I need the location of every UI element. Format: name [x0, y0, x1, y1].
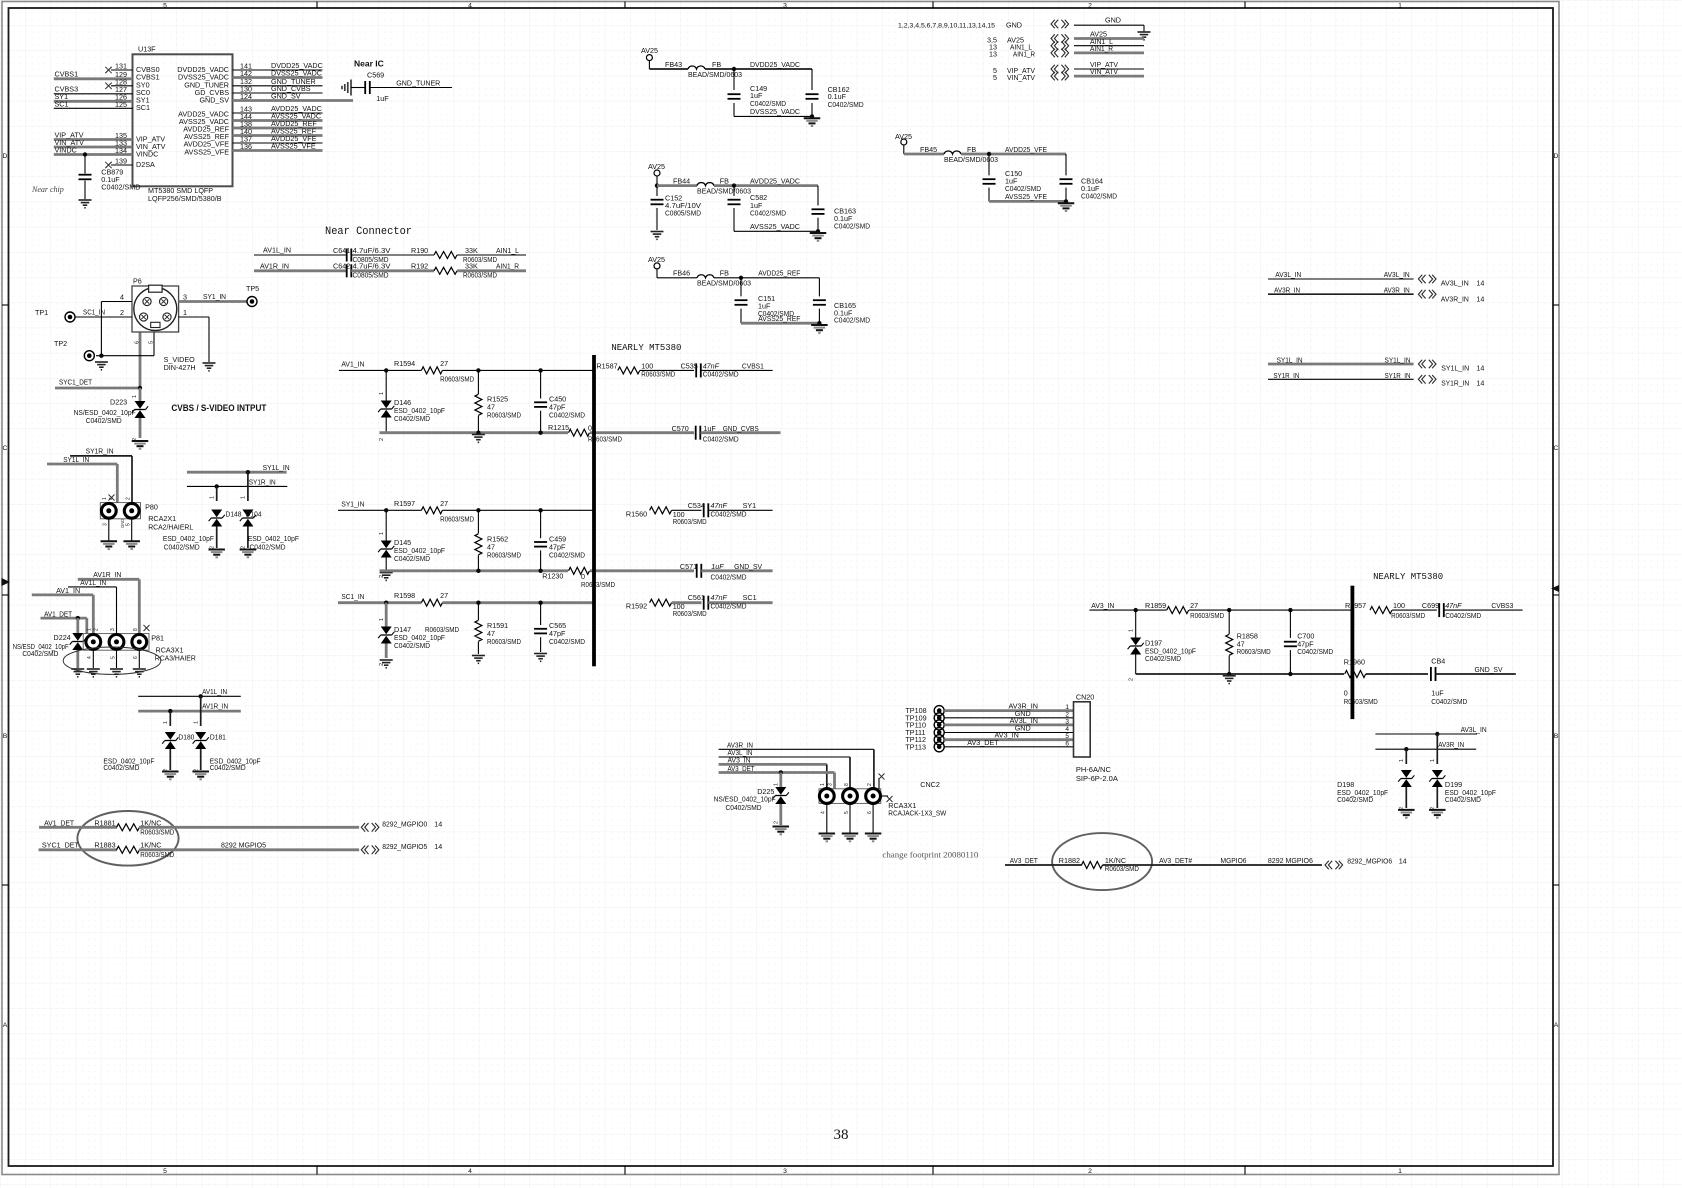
svg-text:GND: GND: [1006, 21, 1022, 30]
node R1858 junction: [1227, 608, 1231, 612]
net VINDC wire to pin 134: [54, 145, 133, 155]
capacitor CB164: [1060, 154, 1118, 201]
ground below D225: [773, 827, 790, 835]
ferrite bead FB46: [673, 269, 751, 288]
svg-text:CVBS3: CVBS3: [1491, 601, 1513, 610]
ground below CB165: [811, 325, 828, 333]
svg-text:1: 1: [132, 395, 138, 398]
ground below P81 pin 6: [133, 669, 146, 677]
svg-text:AV3R_IN: AV3R_IN: [1441, 294, 1469, 303]
svg-text:D223: D223: [110, 398, 127, 407]
svg-text:VINDC: VINDC: [55, 145, 77, 154]
svg-text:CB4: CB4: [1431, 657, 1445, 666]
svg-text:VIN_ATV: VIN_ATV: [1090, 67, 1118, 76]
resistor R1597: [394, 499, 594, 524]
ground below D199: [1429, 810, 1446, 818]
terminal AV25 (FB45): [895, 132, 944, 154]
resistor R192: [404, 262, 526, 280]
node TP2/ground junction: [99, 354, 103, 358]
diode D223: [74, 388, 149, 441]
node D146 junction: [384, 368, 388, 372]
op-amp U13F MT5380 IC body: [133, 44, 233, 186]
svg-text:R1859: R1859: [1145, 601, 1166, 610]
svg-text:27: 27: [1190, 601, 1198, 610]
svg-text:1: 1: [102, 497, 108, 500]
test point TP1: [35, 308, 75, 322]
x-marks at CNC2 switch pins: [879, 774, 893, 803]
node C565 junction: [538, 601, 542, 605]
svg-text:AV3_DET: AV3_DET: [967, 738, 999, 747]
svg-text:A: A: [1554, 1022, 1559, 1029]
net SY1R_IN wire to P80: [70, 447, 132, 503]
svg-text:C0402/SMD: C0402/SMD: [711, 602, 747, 611]
wire CN20 pin 3 net AV3L_IN: [944, 716, 1073, 726]
resistor R1591: [475, 603, 521, 654]
net GND_CVBS pin 130: [233, 84, 323, 93]
svg-text:R1957: R1957: [1345, 601, 1366, 610]
svg-text:8292_MGPIO5: 8292_MGPIO5: [382, 842, 427, 851]
svg-text:5: 5: [126, 523, 132, 526]
svg-text:C: C: [3, 445, 8, 452]
svg-text:1: 1: [1065, 704, 1069, 711]
net GND_TUNER label: [396, 78, 440, 87]
svg-text:C0402/SMD: C0402/SMD: [834, 316, 870, 325]
terminal AV25 (FB46): [648, 255, 697, 278]
svg-text:AVSS25_VADC: AVSS25_VADC: [750, 222, 800, 231]
diode D146: [378, 370, 445, 441]
svg-text:1K/NC: 1K/NC: [140, 818, 161, 827]
net SY1R_IN row: [1268, 371, 1414, 380]
right border revision arrow: [1551, 585, 1559, 592]
svg-text:PH-6A/NC: PH-6A/NC: [1076, 765, 1111, 774]
Near Connector title: [325, 226, 412, 238]
NEARLY MT5380 left divider bar: [592, 355, 596, 666]
svg-text:GND_TUNER: GND_TUNER: [396, 78, 440, 87]
P6 pin 1 wire to ground: [179, 308, 209, 362]
svg-text:1: 1: [1129, 629, 1135, 632]
svg-text:5: 5: [163, 1168, 167, 1175]
net AVSS25_REF pin 140: [233, 127, 323, 136]
node D180 junction: [168, 709, 172, 713]
svg-text:D: D: [3, 153, 8, 160]
net CVBS3 wire to pin 127: [54, 85, 133, 95]
svg-text:R1881: R1881: [94, 818, 115, 827]
svg-text:TP1: TP1: [35, 308, 48, 317]
node R1858 rail junction: [1227, 672, 1231, 676]
svg-text:FB43: FB43: [665, 60, 682, 69]
svg-text:SY1_IN: SY1_IN: [341, 499, 364, 508]
svg-text:1K/NC: 1K/NC: [140, 841, 161, 850]
net AV1L_IN wire: [254, 246, 347, 256]
P6 pin 3 wire SY1_IN to TP5: [179, 292, 247, 302]
svg-text:C561: C561: [688, 593, 705, 602]
wire CN20 pin 4 net GND: [944, 724, 1073, 734]
svg-text:SYC1_DET: SYC1_DET: [42, 841, 80, 850]
net AV3L_IN row: [1268, 270, 1414, 279]
svg-text:C0402/SMD: C0402/SMD: [210, 763, 246, 772]
ground below P6 pin 4: [95, 362, 108, 370]
P6 pin 2 wire SC1_IN to TP1: [75, 308, 132, 318]
svg-text:124: 124: [240, 92, 252, 101]
net GND_SV pin 124: [233, 92, 354, 101]
resistor R190: [404, 246, 526, 264]
svg-text:AV3R_IN: AV3R_IN: [1274, 285, 1300, 294]
left border revision arrow: [2, 578, 11, 586]
net SY1L_IN rail: [187, 463, 290, 472]
ground below C152: [651, 232, 664, 240]
node D197 junction: [1134, 608, 1138, 612]
net AV3_DET wire to CNC2: [719, 764, 835, 789]
terminal AV25 (FB44): [648, 162, 665, 186]
svg-text:RCAJACK-1X3_SW: RCAJACK-1X3_SW: [888, 809, 946, 818]
svg-text:2: 2: [867, 783, 873, 786]
change footprint note: [882, 851, 978, 860]
net AV1R_IN wire to P81: [78, 570, 140, 634]
wire CN20 pin 1 net AV3R_IN: [944, 702, 1073, 712]
svg-text:5: 5: [993, 73, 997, 82]
svg-text:AV3L_IN: AV3L_IN: [1461, 725, 1487, 734]
svg-text:AV3R_IN: AV3R_IN: [1384, 285, 1410, 294]
svg-text:SY1R_IN: SY1R_IN: [1273, 371, 1299, 380]
svg-text:AVDD25_VADC: AVDD25_VADC: [750, 176, 800, 185]
svg-text:1uF: 1uF: [703, 424, 716, 433]
node D147 junction: [384, 601, 388, 605]
capacitor C641: [333, 246, 404, 264]
svg-text:GND_CVBS: GND_CVBS: [723, 424, 759, 433]
svg-text:FB45: FB45: [920, 145, 937, 154]
svg-text:AVDD25_VFE: AVDD25_VFE: [1005, 145, 1047, 154]
ground below P80 pin 5: [123, 541, 140, 549]
svg-text:FB: FB: [967, 145, 976, 154]
svg-text:AV3L_IN: AV3L_IN: [1275, 270, 1301, 279]
svg-text:SY1: SY1: [743, 501, 757, 510]
svg-text:136: 136: [240, 142, 252, 151]
svg-text:2: 2: [94, 628, 100, 631]
svg-text:C0402/SMD: C0402/SMD: [101, 183, 140, 192]
diode D199: [1429, 734, 1496, 810]
svg-text:AVSS25_REF: AVSS25_REF: [758, 314, 801, 323]
svg-text:4: 4: [821, 811, 827, 814]
svg-text:AV3_IN: AV3_IN: [1091, 601, 1114, 610]
capacitor C700: [1284, 610, 1333, 674]
svg-text:R1597: R1597: [394, 499, 415, 508]
net SC1 wire to pin 125: [54, 100, 133, 109]
svg-text:R0603/SMD: R0603/SMD: [440, 374, 474, 383]
test point TP5: [246, 284, 259, 307]
svg-text:C641: C641: [333, 246, 350, 255]
svg-text:14: 14: [1476, 379, 1484, 388]
svg-text:2: 2: [379, 438, 385, 441]
ferrite bead FB43: [665, 60, 742, 79]
svg-text:FB: FB: [712, 60, 721, 69]
diode D197: [1128, 610, 1197, 681]
svg-text:13: 13: [989, 50, 997, 59]
svg-text:14: 14: [1476, 294, 1484, 303]
svg-text:R1883: R1883: [94, 841, 115, 850]
svg-text:1uF: 1uF: [376, 94, 389, 103]
svg-text:1: 1: [379, 532, 385, 535]
svg-text:R0603/SMD: R0603/SMD: [641, 370, 675, 379]
node R1525 junction: [476, 368, 480, 372]
diode D147: [378, 603, 445, 666]
svg-text:C0402/SMD: C0402/SMD: [834, 221, 870, 230]
capacitor C570: [672, 424, 781, 444]
svg-text:BEAD/SMD/0603: BEAD/SMD/0603: [944, 155, 998, 164]
net AV1R_IN wire: [254, 261, 347, 271]
diode D148: [209, 486, 242, 549]
svg-text:Near Connector: Near Connector: [325, 226, 412, 238]
svg-text:8292 MGPIO5: 8292 MGPIO5: [221, 841, 266, 850]
ground below D104: [240, 550, 257, 558]
off-page SY1R_IN: [1418, 375, 1484, 388]
wire AVSS25_VADC rail: [734, 222, 820, 234]
svg-text:AVSS25_VFE: AVSS25_VFE: [1005, 192, 1047, 201]
svg-text:C0402/SMD: C0402/SMD: [750, 208, 786, 217]
svg-text:1: 1: [379, 618, 385, 621]
svg-text:B: B: [1554, 733, 1559, 740]
svg-text:D224: D224: [54, 633, 71, 642]
svg-text:C0402/SMD: C0402/SMD: [711, 572, 747, 581]
svg-text:P6: P6: [133, 277, 142, 286]
ground below CNC2 pin 5: [842, 834, 859, 842]
node C700 rail junction: [1288, 672, 1292, 676]
connector P6 S_VIDEO DIN-427H: [132, 277, 196, 373]
resistor R1883 row: [39, 841, 360, 859]
svg-text:R192: R192: [411, 262, 428, 271]
test point TP2: [54, 339, 94, 361]
svg-text:AV1L_IN: AV1L_IN: [80, 578, 106, 587]
svg-text:B: B: [3, 733, 8, 740]
svg-text:8292_MGPIO0: 8292_MGPIO0: [382, 819, 427, 828]
svg-text:4: 4: [120, 293, 124, 302]
ferrite bead FB45: [920, 145, 998, 164]
svg-text:1uF: 1uF: [711, 562, 724, 571]
capacitor C150: [983, 154, 1042, 201]
capacitor CB165: [813, 278, 870, 325]
net SC1_IN wire: [338, 592, 421, 603]
test point TP113: [905, 742, 944, 752]
net AV1_IN wire to P81: [32, 586, 94, 634]
svg-text:6: 6: [133, 656, 139, 659]
svg-text:R1882: R1882: [1059, 856, 1080, 865]
capacitor C152: [651, 186, 702, 230]
resistor R1960 (0 ohm): [1344, 658, 1428, 707]
svg-text:125: 125: [115, 100, 127, 109]
svg-text:C0402/SMD: C0402/SMD: [1431, 697, 1467, 706]
svg-text:C0402/SMD: C0402/SMD: [1337, 795, 1373, 804]
wire AVSS25_REF rail: [741, 314, 822, 325]
NEARLY MT5380 left title: [611, 342, 681, 353]
ground below D181: [192, 772, 209, 780]
svg-text:SC1_IN: SC1_IN: [83, 308, 105, 317]
net AV1L_IN stub rail: [138, 687, 241, 697]
svg-text:C0402/SMD: C0402/SMD: [394, 554, 430, 563]
svg-text:CN20: CN20: [1076, 693, 1094, 702]
resistor R1525: [475, 370, 521, 432]
capacitor C569: [351, 81, 452, 103]
svg-text:SC1: SC1: [743, 593, 757, 602]
net AV3R_IN row: [1268, 285, 1414, 294]
svg-text:C0402/SMD: C0402/SMD: [1445, 611, 1481, 620]
svg-text:1: 1: [1430, 759, 1436, 762]
svg-text:AV1_IN: AV1_IN: [341, 359, 364, 368]
svg-text:C571: C571: [680, 562, 697, 571]
resistor R1594: [394, 359, 594, 384]
svg-text:A: A: [3, 1022, 8, 1029]
svg-text:8: 8: [844, 783, 850, 786]
net SY1R_IN rail: [187, 477, 287, 486]
node C700 junction: [1288, 608, 1292, 612]
CNC2 ground stems: [827, 803, 873, 832]
node R1525 rail junction: [476, 431, 480, 435]
svg-text:C0805/SMD: C0805/SMD: [353, 271, 389, 280]
wire DVDD25_VADC: [732, 60, 812, 71]
svg-text:SY1L_IN: SY1L_IN: [263, 463, 290, 472]
svg-text:R1594: R1594: [394, 359, 415, 368]
svg-text:TP5: TP5: [246, 284, 259, 293]
svg-text:NEARLY MT5380: NEARLY MT5380: [1373, 571, 1443, 582]
svg-text:C0402/SMD: C0402/SMD: [828, 100, 864, 109]
wire AV3 bottom rail: [1136, 673, 1344, 675]
diode D180: [162, 711, 194, 772]
CN20 footprint labels: [1076, 765, 1118, 783]
net AV3_IN wire to CNC2: [719, 756, 827, 789]
node D225 junction: [779, 770, 783, 774]
svg-text:1: 1: [820, 783, 826, 786]
svg-text:R1960: R1960: [1344, 658, 1365, 667]
svg-text:1: 1: [379, 392, 385, 395]
svg-text:R0603/SMD: R0603/SMD: [581, 580, 615, 589]
svg-text:C: C: [1554, 445, 1559, 452]
net AV3L_IN stub rail: [1375, 725, 1486, 734]
svg-text:5: 5: [844, 811, 850, 814]
capacitor C450: [534, 370, 585, 432]
svg-text:GND: GND: [1105, 16, 1121, 25]
terminal AV25 (FB43): [641, 46, 688, 69]
ferrite bead FB44: [657, 176, 751, 195]
svg-text:R0603/SMD: R0603/SMD: [1344, 697, 1378, 706]
net DVSS25_VADC pin 142: [233, 69, 323, 78]
off-page VIP_ATV: [993, 60, 1144, 75]
D148 value labels: [163, 534, 215, 551]
ground at R1525 rail: [472, 435, 485, 443]
svg-text:AV3L_IN: AV3L_IN: [1384, 270, 1410, 279]
net AVSS25_VFE pin 136: [233, 142, 323, 151]
ground below D148: [208, 550, 225, 558]
svg-text:R1587: R1587: [596, 361, 617, 370]
svg-text:C0402/SMD: C0402/SMD: [394, 414, 430, 423]
capacitor CB879: [79, 155, 141, 200]
U13F footprint label: [148, 186, 222, 203]
svg-text:5: 5: [1065, 733, 1069, 740]
svg-text:P81: P81: [151, 633, 164, 642]
svg-text:C569: C569: [367, 70, 384, 79]
svg-text:1,2,3,4,5,6,7,8,9,10,11,13,14,: 1,2,3,4,5,6,7,8,9,10,11,13,14,15: [898, 23, 995, 30]
U13F right pin names: [177, 65, 229, 156]
svg-text:AV1L_IN: AV1L_IN: [263, 246, 291, 255]
ground below CB163: [810, 233, 827, 241]
svg-text:SY1R_IN: SY1R_IN: [1441, 379, 1469, 388]
svg-text:27: 27: [440, 359, 448, 368]
svg-text:14: 14: [434, 842, 442, 851]
capacitor CB163: [812, 186, 871, 232]
svg-text:SIP-6P-2.0A: SIP-6P-2.0A: [1076, 774, 1118, 783]
svg-text:R1598: R1598: [394, 591, 415, 600]
capacitor C151: [735, 278, 795, 323]
net SY1L_IN row: [1268, 355, 1414, 364]
off-page AIN1_L: [989, 37, 1144, 52]
svg-text:100: 100: [1393, 601, 1405, 610]
net CVBS1 wire to pin 129: [54, 70, 133, 79]
svg-text:R0603/SMD: R0603/SMD: [487, 411, 521, 420]
svg-text:AVSS25_VFE: AVSS25_VFE: [184, 148, 229, 157]
svg-text:C0402/SMD: C0402/SMD: [703, 435, 739, 444]
svg-text:38: 38: [834, 1127, 849, 1143]
svg-text:R1560: R1560: [626, 509, 647, 518]
svg-text:CVBS1: CVBS1: [55, 70, 79, 79]
svg-text:GND_SV: GND_SV: [271, 92, 301, 101]
svg-text:47nF: 47nF: [711, 593, 728, 602]
svg-text:Near IC: Near IC: [354, 59, 384, 69]
svg-text:27: 27: [440, 499, 448, 508]
svg-text:47nF: 47nF: [1445, 601, 1462, 610]
net SYC1_DET wire: [55, 377, 140, 388]
svg-text:LQFP256/SMD/5380/B: LQFP256/SMD/5380/B: [148, 194, 222, 203]
svg-text:C0402/SMD: C0402/SMD: [103, 763, 139, 772]
svg-text:R0603/SMD: R0603/SMD: [673, 609, 707, 618]
svg-text:C534: C534: [688, 501, 705, 510]
svg-text:MGPIO6: MGPIO6: [1221, 856, 1247, 865]
svg-text:3: 3: [1065, 718, 1069, 725]
svg-text:SYC1_DET: SYC1_DET: [59, 377, 93, 386]
svg-text:1: 1: [210, 496, 216, 499]
ground below P80 pin 3: [101, 541, 118, 549]
svg-text:SY1_IN: SY1_IN: [203, 292, 226, 301]
node D198 junction: [1404, 747, 1408, 751]
D180 value labels: [103, 756, 155, 772]
svg-text:C0402/SMD: C0402/SMD: [394, 641, 430, 650]
svg-text:R0603/SMD: R0603/SMD: [487, 637, 521, 646]
svg-text:GND_SV: GND_SV: [1475, 665, 1503, 674]
svg-text:0: 0: [588, 424, 592, 433]
svg-text:2: 2: [120, 308, 124, 317]
svg-text:AV3L_IN: AV3L_IN: [1441, 279, 1469, 288]
ground below CNC2 pin 4: [819, 834, 836, 842]
svg-text:AV1_IN: AV1_IN: [56, 586, 80, 595]
svg-text:C0402/SMD: C0402/SMD: [1145, 654, 1181, 663]
svg-text:CVBS1: CVBS1: [742, 361, 764, 370]
svg-text:2: 2: [1129, 678, 1135, 681]
off-page AV3R_IN: [1418, 290, 1484, 303]
capacitor C642: [333, 262, 404, 280]
off-page AV3L_IN: [1418, 275, 1484, 288]
svg-text:2: 2: [774, 821, 780, 824]
net AV1L_IN wire to P81: [68, 578, 117, 634]
svg-text:8: 8: [133, 628, 139, 631]
net VIP_ATV wire to pin 135: [54, 130, 133, 140]
svg-text:AV3R_IN: AV3R_IN: [1438, 740, 1464, 749]
node R1591 junction: [476, 601, 480, 605]
wire AVDD25_VADC: [732, 176, 818, 187]
off-page connector 8292_MGPIO6: [1325, 857, 1407, 870]
svg-text:R0603/SMD: R0603/SMD: [463, 271, 497, 280]
ground below P81 pin 4: [87, 669, 100, 677]
svg-text:U13F: U13F: [138, 44, 156, 53]
svg-text:R0603/SMD: R0603/SMD: [140, 850, 174, 859]
net SY1 wire to pin 126: [54, 92, 133, 102]
net GND_TUNER pin 132: [233, 77, 323, 86]
wire CN20 pin 2 net GND: [944, 709, 1073, 719]
